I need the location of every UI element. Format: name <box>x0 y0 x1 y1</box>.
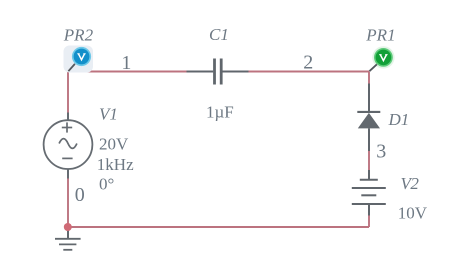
svg-text:D1: D1 <box>388 110 410 129</box>
label PR1 (refdes) <box>365 26 395 45</box>
label V1 phase 0 degrees <box>99 175 114 194</box>
probe PR2 (blue voltage probe) with selection highlight and pointer <box>64 46 94 73</box>
label C1 value 1uF <box>206 103 234 122</box>
svg-text:1µF: 1µF <box>206 103 234 122</box>
capacitor C1 (1uF) symbol: pins and plates <box>187 59 249 85</box>
svg-text:3: 3 <box>376 141 386 163</box>
probe PR1 (green voltage probe) with pointer <box>369 46 394 71</box>
svg-text:0°: 0° <box>99 175 114 194</box>
svg-text:PR2: PR2 <box>63 26 94 45</box>
svg-text:2: 2 <box>303 52 313 74</box>
wire: net 0 left vertical segment (V1 - pin down to ground junction) <box>67 177 69 227</box>
DC voltage source V2 (battery) symbol: pins and plates <box>352 170 386 216</box>
node label 1 <box>121 52 131 74</box>
svg-text:C1: C1 <box>209 25 229 44</box>
label PR2 (refdes) <box>63 26 94 45</box>
label V1 value 20V <box>99 135 129 154</box>
svg-text:20V: 20V <box>99 135 129 154</box>
label V2 value 10V <box>398 204 428 223</box>
svg-text:0: 0 <box>75 184 85 206</box>
node label 0 <box>75 184 85 206</box>
wire: net 1 top horizontal segment (node1 corner to C1 left pin) <box>68 71 188 73</box>
node label 2 <box>303 52 313 74</box>
wire: net 2 top horizontal segment (C1 right pin to node2 corner) <box>247 71 369 73</box>
junction dot at ground node <box>64 223 72 231</box>
label V2 (refdes) <box>401 174 420 193</box>
svg-text:V1: V1 <box>99 105 118 124</box>
label V1 frequency 1kHz <box>97 155 134 174</box>
svg-text:10V: 10V <box>398 204 428 223</box>
AC voltage source V1 symbol: pins, circle, plus, sine, minus <box>44 113 93 179</box>
wire: net 2 right vertical segment (node2 corner down to D1 cathode pin) <box>368 72 370 86</box>
svg-text:V2: V2 <box>401 174 420 193</box>
svg-text:1: 1 <box>121 52 131 74</box>
svg-text:1kHz: 1kHz <box>97 155 134 174</box>
label C1 (refdes) <box>209 25 229 44</box>
wire: net 0 bottom horizontal segment (junction to V2 bottom corner) <box>68 226 369 228</box>
wire: net 3 right vertical segment (D1 anode pin to V2 top pin) <box>368 150 370 171</box>
wire: net 1 left vertical segment (top corner down to V1 + pin) <box>67 72 69 115</box>
ground symbol at net 0 <box>55 227 81 250</box>
svg-text:PR1: PR1 <box>365 26 395 45</box>
label V1 (refdes) <box>99 105 118 124</box>
diode D1 symbol: cathode pin, cathode bar, anode triangle, anode pin <box>357 84 380 152</box>
node label 3 <box>376 141 386 163</box>
wire: net 0 right vertical segment (V2 bottom pin down to bottom corner) <box>368 214 370 227</box>
label D1 (refdes) <box>388 110 410 129</box>
